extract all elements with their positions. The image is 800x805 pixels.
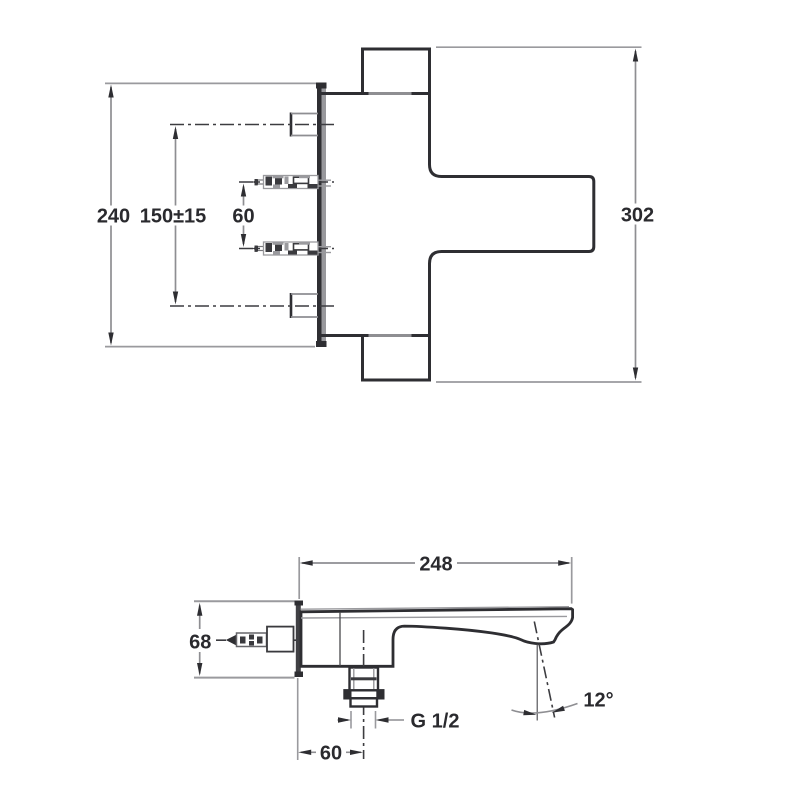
svg-text:G 1/2: G 1/2 (411, 711, 460, 733)
angle 12 tilted axis centerline (534, 622, 554, 718)
svg-text:240: 240 (97, 206, 130, 228)
top wall anchor (253, 175, 332, 188)
body right profile with T-arm (430, 94, 594, 336)
body inner vertical line (339, 612, 341, 666)
svg-text:12°: 12° (583, 690, 613, 712)
svg-text:60: 60 (320, 743, 342, 765)
svg-text:68: 68 (189, 632, 211, 654)
side wall plate (296, 601, 301, 677)
dim G1/2 extension tick right (375, 711, 377, 729)
top handle (square knob) (363, 49, 430, 94)
dim 68 extension line top (194, 600, 295, 602)
dim 302 extension line top (436, 46, 642, 48)
escutcheon wall plate (grey face) (322, 83, 327, 348)
plate bottom cap (316, 341, 327, 347)
body bottom edge (dark-grey-dark segments) (322, 334, 431, 337)
side plate bottom cap (295, 672, 304, 678)
bottom union connector rect (291, 293, 318, 318)
angle 12 arc (512, 704, 578, 714)
dim 240 line (110, 87, 112, 343)
dim 60 line (top view) (243, 187, 245, 245)
spout inner top line (grey) (301, 616, 567, 618)
dim 240 extension line top (105, 82, 316, 84)
dim 248 extension line left (298, 557, 300, 599)
dim 150±15 line (175, 129, 177, 302)
svg-text:248: 248 (419, 554, 452, 576)
body top edge (dark-grey-dark segments) (322, 92, 431, 95)
spout outline (301, 609, 573, 667)
check valve centerline (side view) (216, 639, 296, 641)
angle 12 vertical reference line (536, 644, 538, 721)
top union centerline (170, 124, 336, 126)
spout top face line (grey) (301, 607, 569, 610)
inlet fitting rect (267, 627, 294, 652)
dim 240 extension line bottom (105, 346, 315, 348)
check valve body (237, 633, 267, 647)
escutcheon wall plate (dark edge) (317, 83, 322, 348)
G1/2 threaded neck (350, 668, 379, 691)
check valve tip (226, 635, 236, 646)
svg-text:302: 302 (621, 205, 654, 227)
G1/2 flange nut (345, 690, 384, 698)
side plate top cap (295, 601, 304, 606)
top union connector rect (291, 113, 318, 137)
angle 12 arc arrowheads (523, 710, 537, 718)
dim 68 extension line bottom (194, 677, 295, 679)
dim 248 extension line right (571, 557, 573, 604)
top wall anchor centerline (239, 181, 334, 183)
G1/2 lower stub (351, 698, 378, 706)
dim G1/2 extension tick left (350, 711, 352, 729)
svg-text:60: 60 (232, 206, 254, 228)
G1/2 stub centerline (vertical) (363, 630, 365, 759)
dim 68 line (199, 606, 201, 674)
bottom wall anchor centerline (239, 248, 334, 250)
bottom wall anchor (253, 242, 332, 255)
plate top cap (316, 83, 327, 89)
dim G1/2 leader line (338, 719, 405, 721)
dim 60 extension line (bottom view) (297, 678, 299, 760)
dim 302 line (635, 51, 637, 378)
bottom union centerline (170, 305, 336, 307)
bottom handle (square knob) (363, 336, 430, 381)
dim 248 line (302, 562, 569, 564)
dim 302 extension line bottom (436, 381, 642, 383)
dim 60 line (bottom view) (301, 751, 361, 753)
svg-text:150±15: 150±15 (140, 206, 207, 228)
